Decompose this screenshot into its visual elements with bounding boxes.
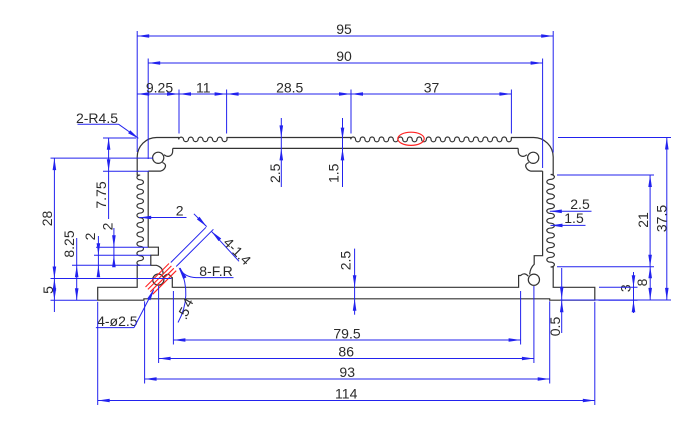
svg-text:1.5: 1.5 xyxy=(325,163,341,183)
svg-text:8-F.R: 8-F.R xyxy=(199,263,232,279)
svg-text:86: 86 xyxy=(338,344,354,360)
svg-text:114: 114 xyxy=(335,386,358,402)
svg-text:5: 5 xyxy=(40,286,56,294)
svg-text:2.5: 2.5 xyxy=(267,163,283,183)
svg-text:90: 90 xyxy=(336,48,352,64)
svg-text:4-ø2.5: 4-ø2.5 xyxy=(97,313,138,329)
svg-text:2: 2 xyxy=(100,222,116,230)
svg-text:2: 2 xyxy=(82,232,98,240)
svg-text:1.5: 1.5 xyxy=(564,210,584,226)
svg-text:11: 11 xyxy=(196,79,211,95)
svg-text:2-R4.5: 2-R4.5 xyxy=(76,110,118,126)
svg-text:3: 3 xyxy=(618,284,634,292)
svg-text:95: 95 xyxy=(336,21,352,37)
svg-text:8: 8 xyxy=(634,278,650,286)
svg-text:7.75: 7.75 xyxy=(93,181,109,208)
svg-text:9.25: 9.25 xyxy=(146,79,173,95)
svg-text:37.5: 37.5 xyxy=(654,205,670,232)
svg-text:37: 37 xyxy=(424,79,440,95)
svg-text:93: 93 xyxy=(339,364,355,380)
svg-text:79.5: 79.5 xyxy=(333,325,360,341)
svg-text:8.25: 8.25 xyxy=(61,230,77,257)
svg-text:2.5: 2.5 xyxy=(337,251,353,271)
svg-text:2: 2 xyxy=(176,203,184,219)
svg-text:28: 28 xyxy=(39,211,55,227)
svg-text:28.5: 28.5 xyxy=(276,79,303,95)
svg-text:21: 21 xyxy=(635,212,651,228)
